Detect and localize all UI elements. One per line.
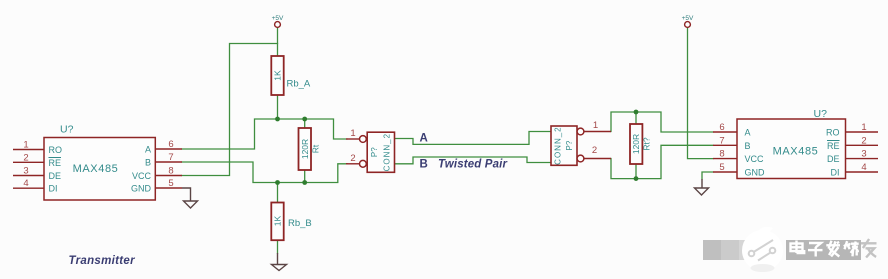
svg-text:B: B [420,158,428,170]
svg-text:B: B [145,158,151,168]
svg-text:Rb_B: Rb_B [288,218,312,229]
svg-text:+5V: +5V [272,15,284,22]
svg-text:DE: DE [49,171,62,181]
svg-text:4: 4 [861,162,866,173]
svg-text:U?: U? [60,124,74,136]
svg-text:A: A [145,145,151,155]
svg-text:DE: DE [827,154,840,164]
svg-text:1K: 1K [273,215,283,226]
svg-text:5: 5 [719,162,724,173]
svg-text:7: 7 [168,152,173,163]
svg-text:5: 5 [168,178,173,189]
svg-text:2: 2 [350,153,355,164]
svg-text:VCC: VCC [132,171,152,181]
svg-text:1: 1 [861,122,866,133]
svg-text:P?: P? [565,140,574,150]
svg-text:1: 1 [593,120,598,131]
svg-text:120R: 120R [631,134,641,154]
svg-text:GND: GND [131,184,152,194]
svg-text:U?: U? [814,108,828,120]
svg-text:Rb_A: Rb_A [287,79,311,90]
svg-text:CONN_2: CONN_2 [554,126,563,164]
svg-text:3: 3 [23,166,28,177]
svg-text:2: 2 [861,135,866,146]
svg-text:A: A [745,128,751,138]
svg-text:GND: GND [745,168,766,178]
svg-text:A: A [420,133,428,145]
svg-text:Transmitter: Transmitter [69,255,136,267]
svg-text:6: 6 [168,139,173,150]
svg-text:6: 6 [719,122,724,133]
svg-text:120R: 120R [300,139,310,159]
svg-text:RE: RE [827,141,840,151]
svg-text:DI: DI [831,168,840,178]
svg-text:Rt: Rt [311,144,321,153]
svg-text:RO: RO [49,145,63,155]
svg-text:CONN_2: CONN_2 [383,133,392,171]
svg-text:VCC: VCC [745,154,765,164]
svg-text:RO: RO [826,128,840,138]
svg-text:MAX485: MAX485 [73,163,119,175]
svg-text:3: 3 [861,149,866,160]
svg-text:B: B [745,141,751,151]
svg-text:+5V: +5V [682,15,694,22]
svg-text:2: 2 [592,145,597,156]
svg-text:2: 2 [23,152,28,163]
svg-text:MAX485: MAX485 [773,146,819,158]
svg-text:4: 4 [23,178,28,189]
svg-text:1: 1 [350,128,355,139]
svg-text:Twisted Pair: Twisted Pair [438,159,507,171]
svg-text:8: 8 [168,166,173,177]
svg-text:1K: 1K [273,70,283,81]
svg-text:7: 7 [719,135,724,146]
svg-text:P?: P? [370,147,379,157]
svg-text:Rt?: Rt? [642,137,652,151]
svg-text:1: 1 [23,140,28,151]
svg-text:DI: DI [49,184,58,194]
svg-text:8: 8 [719,149,724,160]
svg-text:RE: RE [49,158,62,168]
